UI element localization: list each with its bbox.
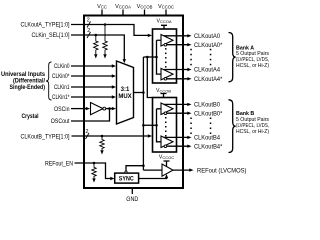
svg-text:VCCOA: VCCOA (115, 4, 131, 10)
junction dot mux output (142, 91, 145, 94)
wire CLKin0 to MUX (71, 65, 113, 67)
pin VCCOC tick (165, 10, 167, 17)
svg-text:CLKoutA_TYPE[1:0]: CLKoutA_TYPE[1:0] (21, 23, 70, 29)
svg-text:CLKoutB_TYPE[1:0]: CLKoutB_TYPE[1:0] (21, 134, 70, 140)
supply tick VCCOA (161, 25, 167, 29)
arrowhead CLKin0* (112, 74, 116, 77)
svg-text:Universal Inputs: Universal Inputs (1, 72, 46, 78)
junction dot oscillator feedback (108, 107, 111, 110)
ellipsis dots bank A labels column (210, 49, 212, 66)
buffer B1 inverted output bubble (164, 112, 167, 115)
wire CLKoutA0 (164, 35, 188, 37)
arrowhead REFout_EN into SYNC (110, 177, 114, 180)
resistor pulldown R3 (CLKoutB_TYPE) (100, 136, 104, 150)
supply tick VCCOB (161, 94, 167, 98)
arrowhead CLKin0 (112, 64, 116, 67)
bus slash CLKin_SEL (87, 32, 91, 38)
ellipsis dots bank B inside (165, 117, 167, 137)
bank B distribution wire (157, 109, 162, 142)
svg-text:SYNC: SYNC (119, 177, 135, 183)
svg-text:CLKin1*: CLKin1* (52, 95, 70, 101)
wire CLKin1* to MUX (71, 96, 113, 98)
svg-text:CLKin_SEL[1:0]: CLKin_SEL[1:0] (32, 33, 70, 39)
ellipsis dots bank B labels column (210, 118, 212, 135)
svg-text:CLKoutA0*: CLKoutA0* (194, 43, 223, 49)
svg-text:HCSL, or Hi-Z): HCSL, or Hi-Z) (236, 63, 269, 69)
wire clock to REFout buffer (143, 169, 162, 171)
wire sync clock input (126, 166, 143, 171)
svg-text:2: 2 (87, 28, 90, 34)
arrowhead R3 pulldown (100, 150, 103, 154)
brace bank A (229, 33, 236, 82)
main chip boundary box (84, 16, 183, 189)
svg-text:CLKoutB0*: CLKoutB0* (194, 111, 223, 117)
wire OSCout feedback (71, 109, 110, 121)
svg-text:VCC: VCC (97, 4, 107, 10)
bank A distribution wire (157, 40, 162, 74)
svg-text:REFout_EN: REFout_EN (45, 161, 73, 167)
svg-text:CLKoutA0: CLKoutA0 (194, 34, 221, 40)
junction dot R3 tap (101, 135, 104, 138)
arrowhead CLKoutB0* (187, 112, 191, 115)
resistor pulldown R2 (CLKoutA_TYPE) (103, 25, 107, 55)
wire CLKoutA4* (167, 78, 188, 80)
arrowhead CLKoutB4 (187, 136, 191, 139)
wire CLKoutA_TYPE into chip (71, 25, 150, 36)
buffer A1 inverted output bubble (164, 43, 167, 46)
arrowhead CLKin1 (112, 85, 116, 88)
svg-text:VCCOB: VCCOB (137, 4, 153, 10)
arrowhead CLKoutA_TYPE into Bank A (148, 34, 152, 37)
wire CLKoutB_TYPE into Bank B (72, 135, 150, 137)
arrowhead SYNC enable into REFout buffer (165, 174, 168, 178)
svg-text:REFout (LVCMOS): REFout (LVCMOS) (197, 168, 247, 174)
junction dot R4 tap (93, 162, 96, 165)
buffer B2 (161, 136, 173, 148)
arrowhead CLKoutA0 (187, 34, 191, 37)
svg-text:CLKoutB0: CLKoutB0 (194, 103, 221, 109)
svg-text:(Differential/: (Differential/ (13, 78, 45, 84)
pin VCCOA tick (122, 10, 124, 17)
junction dot R2 tap on CLKoutA_TYPE (104, 23, 107, 26)
wire MUX output to distribution node (134, 92, 144, 94)
svg-text:2: 2 (87, 18, 90, 24)
ellipsis dots bank A inside (165, 48, 167, 68)
wire clock distribution vertical (142, 57, 144, 170)
oscillator inverter U1 (91, 103, 104, 115)
arrowhead CLKin_SEL into MUX (123, 59, 126, 63)
wire CLKin1 to MUX (71, 86, 113, 88)
arrowhead CLKoutA0* (187, 43, 191, 46)
wire OSCin to inverter (71, 108, 87, 110)
svg-text:3:1: 3:1 (121, 87, 130, 93)
supply tick VCCOC (164, 161, 170, 167)
wire REFout output (173, 169, 190, 171)
wire CLKoutB0* (167, 112, 188, 114)
svg-text:OSCin: OSCin (54, 107, 70, 113)
arrowhead CLKoutA4 (187, 68, 191, 71)
arrowhead CLKoutB0 (187, 103, 191, 106)
svg-text:CLKoutB4*: CLKoutB4* (194, 144, 223, 150)
Bank A box (153, 29, 177, 83)
wire clock to Bank B (143, 124, 156, 126)
pin VCC tick (101, 10, 103, 17)
wire CLKoutB0 (164, 103, 188, 105)
svg-text:VCCOC: VCCOC (159, 154, 174, 160)
svg-text:CLKin0*: CLKin0* (52, 74, 70, 80)
inverter output bubble (103, 107, 106, 110)
buffer A2 (161, 68, 173, 80)
arrowhead CLKoutA4* (187, 77, 191, 80)
svg-text:OSCout: OSCout (51, 119, 70, 125)
arrowhead inverter to MUX (112, 107, 116, 110)
junction dot sync tap (146, 56, 149, 59)
pin GND tick (131, 188, 133, 194)
junction dot bank B feed (155, 124, 158, 127)
ellipsis dots bank B arrows column (190, 118, 192, 135)
wire REFout_EN to SYNC (75, 163, 112, 179)
svg-text:MUX: MUX (118, 94, 131, 100)
svg-text:CLKoutA4*: CLKoutA4* (194, 77, 223, 83)
resistor pulldown R1 (CLKin_SEL) (94, 35, 98, 54)
svg-text:GND: GND (126, 197, 139, 203)
buffer REFout U2 (162, 164, 173, 176)
junction dot sync clock branch (142, 164, 145, 167)
svg-text:Crystal: Crystal (22, 114, 39, 120)
bus slash CLKoutA_TYPE (87, 22, 91, 28)
svg-text:CLKin0: CLKin0 (54, 64, 70, 70)
svg-text:Single-Ended): Single-Ended) (10, 85, 46, 91)
junction dot R1 tap on CLKin_SEL (95, 34, 98, 37)
wire CLKoutB4 (164, 136, 188, 138)
arrowhead R1 pulldown (94, 54, 97, 58)
arrowhead R2 pulldown (103, 54, 106, 58)
wire clock to Bank A (143, 56, 156, 58)
wire CLKin0* to MUX (71, 75, 113, 77)
svg-text:VCCOA: VCCOA (156, 19, 171, 25)
svg-text:VCCOC: VCCOC (158, 4, 174, 10)
wire inverter output to MUX (106, 108, 113, 110)
svg-text:CLKoutA4: CLKoutA4 (194, 68, 221, 74)
wire CLKoutA0* (167, 44, 188, 46)
arrowhead REFout (189, 168, 193, 171)
wire CLKoutB4* (167, 145, 188, 147)
buffer A1 (161, 35, 173, 47)
buffer A2 inverted output bubble (164, 78, 167, 81)
arrowhead R4 pulldown (92, 178, 95, 182)
arrowhead CLKoutB4* (187, 145, 191, 148)
wire CLKin_SEL to MUX select (71, 35, 124, 60)
buffer B1 (161, 103, 173, 115)
junction dot bank B branch (142, 124, 145, 127)
wire SYNC output to REFout enable (139, 178, 167, 179)
wire CLKoutA4 (164, 69, 188, 71)
pin VCCOB tick (144, 10, 146, 17)
buffer B2 inverted output bubble (164, 145, 167, 148)
arrowhead CLKin1* (112, 95, 116, 98)
Bank B box (153, 98, 177, 153)
brace universal inputs (46, 62, 52, 100)
SYNC block (115, 173, 139, 183)
junction dot bank A feed (155, 56, 158, 59)
svg-text:HCSL, or Hi-Z): HCSL, or Hi-Z) (236, 129, 269, 135)
arrowhead CLKoutB_TYPE into Bank B (148, 134, 152, 137)
ellipsis dots bank A arrows column (190, 49, 192, 66)
svg-text:CLKoutB4: CLKoutB4 (194, 136, 221, 142)
arrowhead OSCin into inverter (86, 107, 90, 110)
bus slash CLKoutB_TYPE (86, 133, 90, 139)
inversion bubble at SYNC clock input (125, 171, 127, 173)
wire sync tap down (147, 57, 152, 98)
brace bank B (229, 100, 236, 153)
resistor pulldown R4 (REFout_EN) (92, 163, 96, 178)
svg-text:2: 2 (86, 129, 89, 135)
svg-text:CLKin1: CLKin1 (54, 85, 70, 91)
mux 3:1 trapezoid (117, 61, 134, 124)
